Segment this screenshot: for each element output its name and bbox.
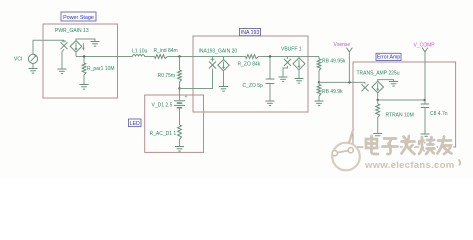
svg-text:RB 49.95k: RB 49.95k: [322, 59, 346, 65]
svg-text:L1 10u: L1 10u: [132, 48, 148, 54]
svg-text:www.elecfans.com: www.elecfans.com: [364, 160, 454, 171]
svg-text:R_ind 84m: R_ind 84m: [154, 48, 178, 54]
svg-text:INA193_GAIN 20: INA193_GAIN 20: [199, 48, 238, 54]
svg-text:VBUFF 1: VBUFF 1: [281, 46, 302, 52]
svg-text:Power Stage: Power Stage: [63, 15, 94, 21]
svg-text:LED: LED: [130, 121, 140, 127]
svg-text:Vsense: Vsense: [334, 42, 351, 48]
svg-text:R_ZO 84k: R_ZO 84k: [238, 61, 261, 67]
svg-text:R_par1 10M: R_par1 10M: [87, 66, 115, 72]
svg-text:VCI: VCI: [14, 57, 22, 63]
svg-text:RB 49.9k: RB 49.9k: [322, 89, 343, 95]
svg-text:RTRAN 10M: RTRAN 10M: [386, 113, 414, 119]
svg-text:V_D1 2.5: V_D1 2.5: [152, 103, 173, 109]
svg-text:TRANS_AMP 225u: TRANS_AMP 225u: [357, 70, 400, 76]
svg-text:PWR_GAIN 13: PWR_GAIN 13: [55, 28, 89, 34]
svg-text:C8 4.7n: C8 4.7n: [430, 111, 448, 117]
svg-text:+: +: [185, 95, 188, 101]
svg-text:INA 193: INA 193: [241, 30, 260, 36]
svg-text:V_COMP: V_COMP: [414, 42, 436, 48]
svg-text:R_AC_D1 1: R_AC_D1 1: [150, 131, 177, 137]
svg-text:R0 75m: R0 75m: [158, 73, 176, 79]
svg-text:C_ZO 5p: C_ZO 5p: [243, 83, 264, 89]
svg-text:Error Amp: Error Amp: [377, 55, 400, 61]
